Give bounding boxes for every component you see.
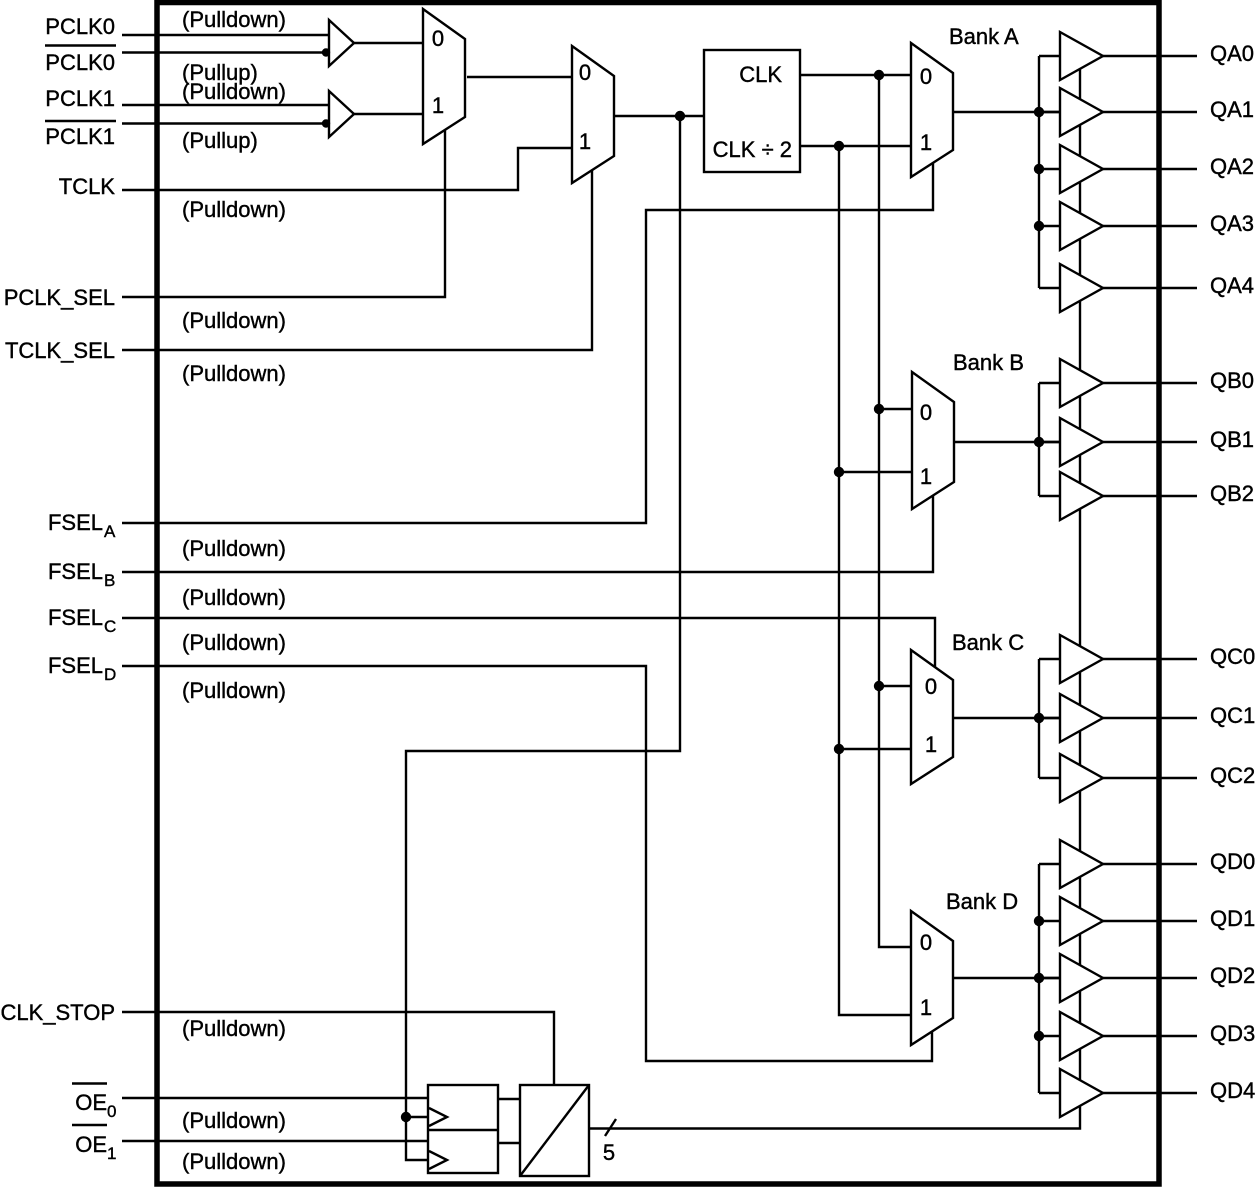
svg-text:(Pulldown): (Pulldown) xyxy=(182,197,286,222)
svg-text:QD3: QD3 xyxy=(1210,1021,1255,1046)
svg-text:OE: OE xyxy=(75,1132,107,1157)
svg-text:(Pulldown): (Pulldown) xyxy=(182,361,286,386)
svg-text:QD4: QD4 xyxy=(1210,1078,1255,1103)
svg-text:CLK_STOP: CLK_STOP xyxy=(0,1000,115,1025)
svg-text:(Pulldown): (Pulldown) xyxy=(182,678,286,703)
svg-text:QA3: QA3 xyxy=(1210,211,1254,236)
svg-text:(Pullup): (Pullup) xyxy=(182,128,258,153)
svg-text:0: 0 xyxy=(107,1102,116,1121)
svg-text:0: 0 xyxy=(920,400,932,425)
svg-text:QB0: QB0 xyxy=(1210,368,1254,393)
svg-text:C: C xyxy=(104,617,116,636)
svg-text:0: 0 xyxy=(925,674,937,699)
svg-text:1: 1 xyxy=(925,732,937,757)
svg-text:PCLK0: PCLK0 xyxy=(45,14,115,39)
svg-text:1: 1 xyxy=(920,995,932,1020)
svg-text:1: 1 xyxy=(432,93,444,118)
svg-text:Bank B: Bank B xyxy=(953,350,1024,375)
svg-text:PCLK1: PCLK1 xyxy=(45,86,115,111)
svg-text:QD2: QD2 xyxy=(1210,963,1255,988)
svg-text:Bank D: Bank D xyxy=(946,889,1018,914)
svg-text:1: 1 xyxy=(107,1144,116,1163)
svg-text:QB1: QB1 xyxy=(1210,427,1254,452)
svg-text:QA4: QA4 xyxy=(1210,273,1254,298)
svg-text:CLK: CLK xyxy=(739,62,782,87)
svg-text:QA1: QA1 xyxy=(1210,97,1254,122)
svg-text:B: B xyxy=(104,571,115,590)
svg-text:1: 1 xyxy=(579,129,591,154)
svg-text:0: 0 xyxy=(579,60,591,85)
svg-text:(Pulldown): (Pulldown) xyxy=(182,1149,286,1174)
svg-text:D: D xyxy=(104,665,116,684)
svg-text:CLK ÷ 2: CLK ÷ 2 xyxy=(713,137,792,162)
svg-text:(Pulldown): (Pulldown) xyxy=(182,630,286,655)
svg-text:PCLK_SEL: PCLK_SEL xyxy=(4,285,115,310)
svg-text:QA2: QA2 xyxy=(1210,154,1254,179)
svg-text:QB2: QB2 xyxy=(1210,481,1254,506)
svg-text:0: 0 xyxy=(920,930,932,955)
svg-text:QC0: QC0 xyxy=(1210,644,1255,669)
svg-text:PCLK1: PCLK1 xyxy=(45,124,115,149)
svg-text:Bank C: Bank C xyxy=(952,630,1024,655)
svg-text:Bank A: Bank A xyxy=(949,24,1019,49)
svg-text:(Pulldown): (Pulldown) xyxy=(182,536,286,561)
svg-text:(Pulldown): (Pulldown) xyxy=(182,79,286,104)
svg-text:FSEL: FSEL xyxy=(48,559,103,584)
svg-text:A: A xyxy=(104,522,116,541)
svg-text:(Pulldown): (Pulldown) xyxy=(182,1016,286,1041)
svg-text:QC2: QC2 xyxy=(1210,763,1255,788)
svg-text:TCLK: TCLK xyxy=(59,174,116,199)
svg-text:(Pulldown): (Pulldown) xyxy=(182,308,286,333)
svg-text:PCLK0: PCLK0 xyxy=(45,50,115,75)
svg-text:0: 0 xyxy=(432,26,444,51)
svg-text:QD0: QD0 xyxy=(1210,849,1255,874)
svg-text:FSEL: FSEL xyxy=(48,605,103,630)
svg-text:QD1: QD1 xyxy=(1210,906,1255,931)
svg-text:FSEL: FSEL xyxy=(48,510,103,535)
svg-text:FSEL: FSEL xyxy=(48,653,103,678)
svg-text:1: 1 xyxy=(920,130,932,155)
svg-text:QC1: QC1 xyxy=(1210,703,1255,728)
svg-text:5: 5 xyxy=(603,1140,615,1165)
svg-text:1: 1 xyxy=(920,464,932,489)
svg-text:QA0: QA0 xyxy=(1210,41,1254,66)
svg-text:(Pulldown): (Pulldown) xyxy=(182,585,286,610)
svg-text:OE: OE xyxy=(75,1090,107,1115)
svg-text:(Pulldown): (Pulldown) xyxy=(182,1108,286,1133)
svg-text:(Pulldown): (Pulldown) xyxy=(182,7,286,32)
svg-text:0: 0 xyxy=(920,64,932,89)
svg-text:TCLK_SEL: TCLK_SEL xyxy=(5,338,115,363)
